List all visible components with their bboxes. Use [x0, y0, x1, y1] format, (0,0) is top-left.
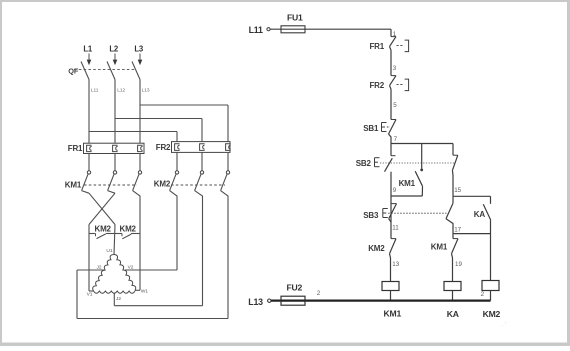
svg-text:KA: KA [447, 309, 459, 319]
svg-text:KM2: KM2 [483, 309, 501, 319]
svg-text:FU2: FU2 [287, 282, 303, 292]
svg-text:W1: W1 [141, 288, 149, 294]
svg-text:13: 13 [392, 261, 399, 268]
svg-text:FR2: FR2 [156, 143, 171, 152]
svg-text:2: 2 [481, 291, 485, 298]
svg-text:2: 2 [317, 290, 321, 297]
svg-text:L3: L3 [134, 45, 144, 54]
svg-text:L13: L13 [248, 297, 263, 307]
svg-text:5: 5 [393, 102, 397, 109]
svg-text:U1: U1 [106, 248, 112, 254]
svg-text:FR1: FR1 [68, 144, 83, 153]
svg-text:FU1: FU1 [287, 13, 303, 23]
svg-text:KM2: KM2 [120, 225, 137, 234]
svg-text:KM2: KM2 [95, 225, 112, 234]
svg-text:KM1: KM1 [65, 180, 82, 189]
svg-text:1: 1 [393, 31, 397, 38]
svg-text:17: 17 [454, 227, 461, 234]
svg-text:KA: KA [474, 210, 486, 219]
svg-text:. ': . ' [502, 322, 506, 328]
svg-text:L12: L12 [117, 87, 125, 93]
svg-text:3: 3 [393, 65, 397, 72]
svg-text:KM2: KM2 [368, 244, 385, 253]
svg-text:SB1: SB1 [363, 124, 379, 133]
svg-text:11: 11 [392, 224, 399, 231]
svg-text:L1: L1 [83, 45, 93, 54]
svg-text:SB2: SB2 [356, 159, 372, 168]
svg-text:7: 7 [394, 136, 398, 143]
svg-text:19: 19 [455, 261, 462, 268]
svg-text:V1: V1 [87, 292, 93, 298]
svg-text:L11: L11 [91, 87, 99, 93]
svg-text:KM2: KM2 [154, 180, 171, 189]
svg-text:L11: L11 [249, 25, 263, 35]
svg-text:QF: QF [68, 67, 79, 76]
svg-text:15: 15 [454, 187, 461, 194]
svg-text:9: 9 [393, 187, 397, 194]
svg-text:KM1: KM1 [431, 242, 448, 251]
svg-text:L2: L2 [109, 45, 119, 54]
svg-text:J2: J2 [116, 296, 121, 302]
svg-text:KM1: KM1 [384, 308, 402, 318]
svg-text:L13: L13 [142, 87, 150, 93]
svg-text:SB3: SB3 [363, 211, 379, 220]
svg-text:KM1: KM1 [399, 179, 416, 188]
svg-text:FR2: FR2 [369, 81, 384, 90]
svg-text:FR1: FR1 [369, 42, 384, 51]
